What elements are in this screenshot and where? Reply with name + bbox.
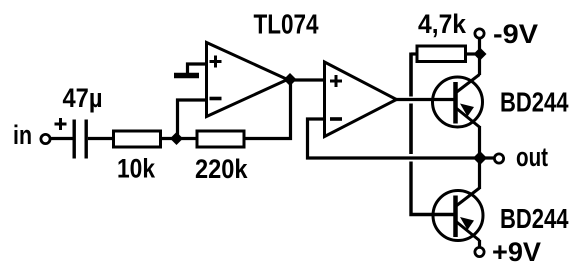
svg-text:out: out <box>516 142 548 172</box>
wire R3 left to Q2 base (crossovers with gaps) <box>411 52 417 55</box>
wire <box>244 80 291 139</box>
svg-text:TL074: TL074 <box>254 9 319 40</box>
wire <box>478 39 481 55</box>
op-amp U2 <box>325 62 397 137</box>
capacitor C1 polarity + <box>55 118 67 130</box>
wire U2 feedback <box>308 119 494 158</box>
svg-text:+9V: +9V <box>492 237 541 267</box>
op-amp U1 TL074 <box>207 43 288 117</box>
transistor Q1 BD244 upper <box>433 75 483 128</box>
terminal +9V <box>475 247 484 256</box>
transistor Q2 BD244 lower <box>433 188 483 241</box>
wire <box>161 137 198 140</box>
resistor R2 220k <box>197 131 244 147</box>
svg-text:-9V: -9V <box>493 19 538 49</box>
svg-text:10k: 10k <box>117 154 156 184</box>
wire R3 right <box>466 52 476 55</box>
svg-text:in: in <box>13 120 32 150</box>
wire <box>88 137 114 140</box>
wire <box>51 137 74 140</box>
svg-text:47µ: 47µ <box>63 83 103 113</box>
ground <box>174 64 206 76</box>
resistor R1 10k <box>114 131 161 147</box>
terminal out <box>494 154 503 163</box>
svg-text:BD244: BD244 <box>500 87 569 118</box>
wire <box>290 78 324 81</box>
svg-text:4,7k: 4,7k <box>418 9 467 39</box>
node U1 output junction <box>284 73 297 86</box>
wire Q1 emitter to out <box>478 126 481 158</box>
node out junction <box>473 151 487 165</box>
node A junction <box>170 132 183 145</box>
wire Q2 collector to out <box>478 158 481 189</box>
terminal -9V <box>475 29 484 38</box>
svg-text:BD244: BD244 <box>500 203 569 234</box>
svg-text:220k: 220k <box>195 154 248 184</box>
wire Q1 collector <box>478 54 481 75</box>
wire U2 output to Q1 base <box>395 98 454 101</box>
node -9V junction <box>474 48 487 61</box>
capacitor C1 47u <box>74 120 86 159</box>
resistor R3 4,7k <box>417 46 466 62</box>
input terminal <box>41 134 50 143</box>
wire <box>178 100 207 139</box>
wire Q2 emitter <box>478 240 481 247</box>
